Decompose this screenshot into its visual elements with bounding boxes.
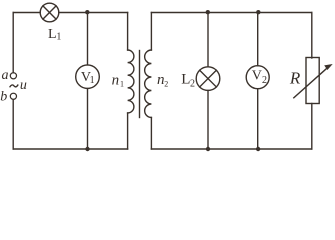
voltmeter V2 branch wire lower <box>257 89 259 149</box>
wire bottom bus right loop <box>151 148 311 150</box>
svg-text:R: R <box>289 68 301 87</box>
wire right edge upper (to resistor R) <box>311 13 313 59</box>
svg-text:L: L <box>181 72 190 88</box>
junction dot L2 bottom <box>206 147 210 151</box>
wire secondary top drop <box>150 13 152 51</box>
label n2 <box>157 72 168 89</box>
svg-text:1: 1 <box>90 75 95 86</box>
voltmeter V1 branch wire upper <box>87 13 89 65</box>
terminal b <box>10 93 16 99</box>
svg-text:1: 1 <box>56 32 61 43</box>
svg-text:2: 2 <box>262 75 267 86</box>
svg-text:2: 2 <box>164 80 168 89</box>
lamp L1 <box>40 3 59 22</box>
label V1 <box>81 70 95 86</box>
svg-text:b: b <box>0 90 7 105</box>
wire bottom bus left loop <box>13 148 127 150</box>
transformer core <box>139 51 141 118</box>
wire top bus left loop (left segment) <box>13 12 40 14</box>
wire top bus right loop <box>151 12 311 14</box>
voltmeter V1 <box>76 65 100 89</box>
lamp L2 branch wire lower <box>207 90 209 149</box>
lamp L2 branch wire upper <box>207 13 209 67</box>
transformer primary winding n1 <box>128 50 134 113</box>
svg-text:1: 1 <box>120 79 124 88</box>
svg-text:L: L <box>48 27 57 42</box>
wire left edge upper (to terminal a) <box>12 13 14 73</box>
label V2 <box>252 69 267 86</box>
variable resistor arrow <box>294 67 328 97</box>
variable resistor arrowhead <box>324 64 333 70</box>
junction dot V1 bottom <box>85 147 89 151</box>
ac source tilde <box>10 85 19 88</box>
svg-text:V: V <box>252 69 262 84</box>
wire right edge lower (from resistor R) <box>311 104 313 150</box>
voltmeter V2 <box>246 66 269 89</box>
junction dot L2 top <box>206 10 210 14</box>
svg-text:n: n <box>112 72 120 88</box>
terminal a <box>10 73 16 79</box>
voltmeter V1 branch wire lower <box>87 89 89 150</box>
lamp L2 <box>196 67 220 91</box>
junction dot V2 bottom <box>256 147 260 151</box>
svg-text:a: a <box>2 68 9 83</box>
voltmeter V2 branch wire upper <box>257 13 259 66</box>
junction dot V1 top <box>85 10 89 14</box>
transformer secondary winding n2 <box>145 50 152 118</box>
wire secondary bottom drop <box>150 118 152 150</box>
label L2 <box>181 72 195 90</box>
svg-text:u: u <box>20 78 27 93</box>
junction dot V2 top <box>256 10 260 14</box>
wire primary top drop <box>127 13 129 51</box>
resistor R body <box>306 58 319 104</box>
label L1 <box>48 27 61 43</box>
wire left edge lower (from terminal b) <box>12 100 14 149</box>
svg-text:2: 2 <box>190 78 195 89</box>
wire primary bottom drop <box>127 113 129 149</box>
wire top bus left loop (right segment) <box>59 12 128 14</box>
label n1 <box>112 72 124 88</box>
